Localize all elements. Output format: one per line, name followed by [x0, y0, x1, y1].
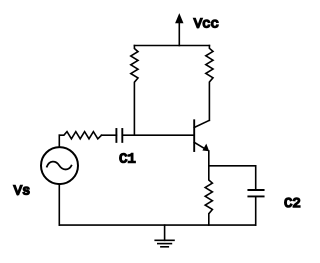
capacitor C2 top plate	[248, 189, 263, 191]
svg-text:C2: C2	[284, 196, 301, 212]
voltage source Vs circle	[41, 147, 78, 184]
ground symbol stem	[164, 225, 166, 240]
capacitor C2 bottom plate	[248, 195, 263, 197]
wire from C1 to transistor base (junction with R1 at x=134.4)	[122, 134, 194, 136]
capacitor C2 top lead	[255, 166, 257, 190]
capacitor C1 right plate	[121, 129, 123, 142]
voltage source sine wave	[47, 162, 72, 170]
wire from R3 to C1	[102, 134, 117, 136]
svg-text:C1: C1	[119, 152, 136, 168]
resistor R4 (emitter resistor)	[205, 166, 212, 225]
transistor Q1 base bar	[193, 120, 195, 151]
ground symbol bar 2	[158, 243, 172, 245]
Vcc power symbol arrowhead	[175, 13, 183, 23]
resistor R1 (left bias resistor)	[131, 46, 138, 136]
capacitor C1 left plate	[115, 129, 117, 142]
resistor R2 (collector bias resistor)	[206, 46, 213, 121]
wire Vs bottom lead	[58, 184, 60, 225]
resistor R3 (series source resistor, horizontal)	[59, 132, 101, 139]
ground symbol bar 3	[161, 246, 168, 248]
transistor Q1 emitter arrowhead	[202, 144, 209, 152]
ground symbol bar 1	[155, 239, 174, 241]
wire emitter node horizontal to C2	[209, 165, 256, 167]
capacitor C2 bottom lead	[255, 196, 257, 225]
svg-text:Vs: Vs	[14, 183, 31, 199]
transistor Q1 emitter diagonal	[194, 142, 206, 149]
wire emitter vertical	[208, 151, 210, 166]
wire top rail (node between R1 top, R2 top, Vcc)	[134, 45, 209, 47]
transistor Q1 collector diagonal	[194, 120, 209, 127]
wire bottom rail	[59, 224, 255, 226]
svg-text:Vcc: Vcc	[194, 16, 219, 32]
Vcc power symbol stem	[178, 23, 180, 45]
wire from Vs top to series resistor corner	[58, 135, 60, 147]
